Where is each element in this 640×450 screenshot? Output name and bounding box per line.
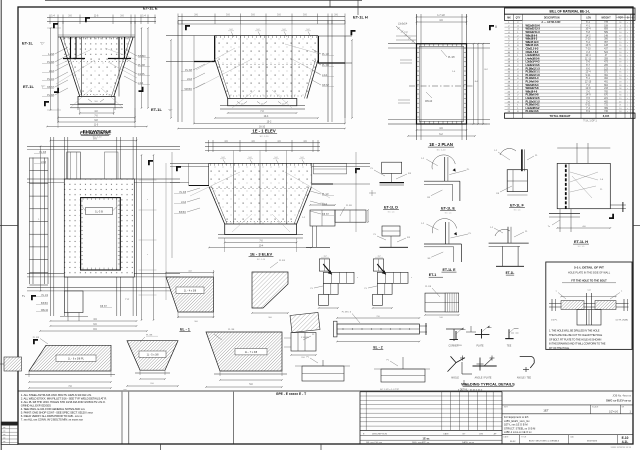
svg-text:x: x: [627, 29, 628, 31]
svg-text:x: x: [627, 25, 628, 27]
small detail m6 (row 2 mid-left, corner with arc): [421, 219, 472, 262]
rect detail with hatch (x425,y293): [424, 286, 459, 319]
detail D flags: [31, 295, 36, 300]
bottom band top rule: [18, 390, 633, 392]
svg-text:5-1-L DETAIL OF PIT: 5-1-L DETAIL OF PIT: [574, 265, 604, 269]
svg-text:II: II: [495, 25, 497, 29]
margin stamp table (outside border, bottom-left): [1, 422, 18, 445]
svg-text:xxBV_ELEV_xxxx_Gx: xxBV_ELEV_xxxx_Gx: [504, 419, 530, 423]
svg-text:x: x: [627, 88, 628, 90]
boxed note (right): typical weld detail note: [546, 262, 632, 350]
small detail m5 (row 2 left): [373, 226, 410, 247]
svg-text:1L - 7 x 3/8: 1L - 7 x 3/8: [245, 351, 258, 354]
svg-text:PL 3/8: PL 3/8: [228, 329, 235, 331]
svg-text:xxxxx xx/xx/xx xx:xx: xxxxx xx/xx/xx xx:xx: [611, 447, 632, 449]
svg-text:x: x: [627, 85, 628, 87]
svg-text:DESCRIPTION: DESCRIPTION: [372, 433, 387, 435]
svg-text:12'-4: 12'-4: [585, 72, 591, 74]
svg-text:SC: 1-10: SC: 1-10: [257, 259, 266, 261]
svg-text:TOTAL WEIGHT: TOTAL WEIGHT: [550, 114, 571, 118]
detail A leader notes, left column: [42, 47, 68, 97]
svg-text:10'-4: 10'-4: [585, 29, 591, 31]
svg-text:11-6: 11-6: [94, 15, 99, 18]
weld legend row2: angle-plate: [473, 356, 497, 380]
svg-text:x: x: [627, 55, 628, 57]
small detail m2 : ET-1L E: [421, 155, 470, 201]
svg-text:1L - 6 x 3/8 PL: 1L - 6 x 3/8 PL: [68, 358, 85, 361]
detail B side leader notes: [181, 49, 334, 91]
svg-text:x: x: [627, 45, 628, 47]
svg-text:x: x: [627, 72, 628, 74]
svg-text:THE PLATE WILL BE CUT TO CLEAR: THE PLATE WILL BE CUT TO CLEAR THE HOLE: [549, 333, 602, 337]
svg-text:1E - 2 PLAN: 1E - 2 PLAN: [429, 142, 453, 147]
vertical dimension ladder (between detail D and E): [141, 155, 143, 320]
svg-text:PL 3/8 x 6: PL 3/8 x 6: [342, 312, 352, 314]
svg-text:15-2: 15-2: [267, 121, 272, 124]
bottom band divider (double, x122): [121, 392, 123, 444]
svg-text:x: x: [627, 32, 628, 34]
svg-text:TYP: TYP: [404, 32, 409, 34]
svg-text:FIT THE HOLE TO THE BOLT: FIT THE HOLE TO THE BOLT: [571, 279, 607, 283]
detail A interior leaders: [56, 50, 90, 66]
long bolted bar detail: [334, 312, 428, 350]
connection cluster detail (lower mid-right): [365, 256, 412, 309]
svg-text:x: x: [411, 277, 412, 279]
svg-text:ET-1L E: ET-1L E: [143, 6, 158, 11]
weld legend: corner symbol: [449, 328, 466, 348]
svg-text:PL1/4x4 0-6: PL1/4x4 0-6: [526, 109, 539, 113]
gusset plate T4 (mid, hatched trapezoid): [166, 277, 214, 312]
svg-text:CORNER: CORNER: [449, 346, 459, 348]
svg-text:1. THE HOLE WILL BE DRILLED IN: 1. THE HOLE WILL BE DRILLED IN THE HOLE: [549, 329, 600, 333]
svg-text:2'-10: 2'-10: [585, 39, 591, 41]
svg-text:xx-xx: xx-xx: [510, 441, 516, 443]
top border tick 2: [357, 0, 359, 15]
svg-text:A — ASTM A36F: A — ASTM A36F: [541, 21, 561, 24]
svg-text:T-1-L 1 OF 1: T-1-L 1 OF 1: [583, 120, 597, 123]
svg-text:ANGLE / PLATE: ANGLE / PLATE: [475, 376, 492, 379]
svg-text:"D": "D": [168, 108, 172, 112]
detail C: framed opening plan (top-right): [388, 14, 490, 140]
bottom band divider x233.5: [233, 392, 235, 444]
svg-text:9'-11: 9'-11: [586, 75, 592, 77]
detail A right vertical dims: [141, 28, 143, 108]
detail E flags: [176, 166, 181, 171]
svg-text:TEE: TEE: [507, 346, 512, 348]
detail E flank verticals: [171, 152, 173, 258]
svg-text:x: x: [627, 52, 628, 54]
detail B interior leaders: [196, 48, 235, 70]
svg-text:SC: 1-10: SC: 1-10: [260, 136, 269, 138]
small angle symbols (x460,y360): [462, 362, 472, 385]
svg-text:ET-1L: ET-1L: [22, 41, 33, 46]
top border tick: [329, 0, 331, 7]
svg-text:TYP: TYP: [125, 299, 130, 301]
detail B flags: [185, 25, 190, 30]
svg-text:11'-11: 11'-11: [585, 58, 592, 60]
svg-text:FIT OF THE HOLE.: FIT OF THE HOLE.: [549, 346, 570, 350]
svg-text:1E - 3 ELEV: 1E - 3 ELEV: [250, 252, 273, 257]
svg-text:ELEV. SECTIONS xx DETAILS: ELEV. SECTIONS xx DETAILS: [529, 440, 560, 443]
svg-text:DES: xxx APP: xx: DES: xxx APP: xx: [412, 441, 430, 444]
svg-text:IN THE DRAWING AND IT WILL CON: IN THE DRAWING AND IT WILL CONFORM TO TH…: [549, 342, 606, 346]
title block: revision table (left): [360, 392, 502, 445]
svg-text:x: x: [627, 108, 628, 110]
detail A: hopper elevation E (top-left): [46, 15, 156, 129]
svg-text:WELDING TYPICAL DETAILS: WELDING TYPICAL DETAILS: [461, 381, 515, 386]
detail E side notes: [174, 188, 334, 216]
svg-text:13'-5: 13'-5: [585, 45, 591, 47]
svg-text:x: x: [627, 105, 628, 107]
svg-text:10-4: 10-4: [264, 115, 269, 118]
bottom margin tick: [160, 444, 162, 450]
svg-text:PLATE: PLATE: [476, 345, 484, 348]
svg-text:ANGLE: ANGLE: [451, 376, 459, 379]
small detail m1 (connection, row 1): [369, 162, 412, 213]
svg-text:x: x: [627, 35, 628, 37]
svg-text:BILL OF MATERIAL BE-1-L: BILL OF MATERIAL BE-1-L: [549, 10, 590, 14]
svg-text:6'-11: 6'-11: [586, 105, 592, 107]
detail E: hopper elevation (mid-center): [170, 140, 370, 252]
small detail m4 : ET-1L H (large, right): [548, 143, 626, 248]
title block: company / drawing info (right): [502, 392, 633, 444]
svg-text:x: x: [357, 277, 358, 279]
small detail m7 (row 2 mid-right): [489, 227, 529, 275]
svg-text:x: x: [627, 81, 628, 83]
right margin tick: [633, 225, 640, 227]
svg-text:ET-1L: ET-1L: [151, 107, 162, 112]
L-shaped plate detail (x308,y210): [302, 203, 369, 247]
svg-text:7'-10: 7'-10: [585, 48, 591, 50]
weld legend: plate symbol: [475, 326, 492, 348]
svg-text:W8x10: W8x10: [425, 101, 433, 103]
svg-text:EL - 2: EL - 2: [373, 346, 382, 350]
svg-text:12'-8: 12'-8: [585, 88, 591, 90]
double rect detail (x288,y315): [284, 333, 317, 360]
bottom margin tick 2: [320, 444, 322, 450]
svg-text:x: x: [627, 22, 628, 24]
svg-text:CAD: CAD: [570, 436, 575, 439]
svg-text:ET-1L: ET-1L: [506, 271, 515, 275]
bottom band divider x360: [359, 392, 361, 444]
bill of material table (top-right): [505, 8, 636, 123]
weld legend row2: angle: [448, 356, 466, 380]
svg-text:12'-10: 12'-10: [585, 81, 592, 83]
svg-text:4-1L: 4-1L: [622, 440, 629, 444]
svg-text:SCALE: SCALE: [592, 406, 599, 409]
svg-text:1L-3 B: 1L-3 B: [95, 210, 103, 214]
svg-text:LEN: LEN: [586, 18, 591, 20]
svg-text:x: x: [147, 199, 148, 201]
svg-text:ET-1L E: ET-1L E: [442, 268, 456, 272]
svg-text:xxBF-1 xxxx-xx 1E O xx: xxBF-1 xxxx-xx 1E O xx: [504, 430, 532, 434]
svg-text:3 SIDED: 3 SIDED: [301, 337, 310, 339]
detail A left vertical dims: [50, 28, 52, 110]
svg-text:QTY: QTY: [516, 18, 521, 20]
weld legend: tee symbol: [505, 329, 519, 348]
svg-text:SC: 1-10: SC: 1-10: [437, 150, 446, 152]
paper left edge: [0, 0, 2, 450]
svg-text:1L - 4 x 3/8: 1L - 4 x 3/8: [184, 290, 197, 293]
svg-text:x: x: [627, 98, 628, 100]
svg-text:x: x: [145, 59, 146, 61]
left margin centre tick: [0, 225, 18, 227]
svg-text:TOT: TOT: [618, 18, 623, 20]
svg-text:xxxx-xxxx: xxxx-xxxx: [587, 441, 598, 443]
svg-text:WEIGHT: WEIGHT: [601, 18, 611, 20]
svg-text:SC: 1-5: SC: 1-5: [514, 210, 522, 212]
svg-text:JOB No. 4xxx-xx: JOB No. 4xxx-xx: [612, 394, 631, 397]
svg-text:PL 3/8: PL 3/8: [346, 205, 353, 207]
svg-text:ELEVATION 1E: ELEVATION 1E: [80, 131, 110, 136]
svg-text:SC: 1-5: SC: 1-5: [445, 213, 453, 215]
svg-text:ANGLE / TEE: ANGLE / TEE: [517, 376, 532, 379]
svg-text:"D": "D": [40, 42, 45, 46]
svg-text:DWG xx-ELEV-xx-xx: DWG xx-ELEV-xx-xx: [606, 399, 631, 403]
gusset plate T1 (bottom-left long, hatched): [25, 337, 115, 389]
skewed plate (3-sided, hatched): [290, 313, 320, 340]
svg-text:1/2"=1-0: 1/2"=1-0: [609, 411, 619, 414]
detail E interior leaders: [190, 172, 240, 196]
svg-text:x: x: [627, 95, 628, 97]
weld legend row2: angle-tee: [517, 357, 534, 380]
svg-text:x: x: [627, 39, 628, 41]
detail A leader notes, right column: [124, 49, 150, 85]
connection cluster detail (lower mid-left): [311, 256, 358, 309]
detail A section flags: [85, 17, 90, 22]
svg-text:x: x: [147, 254, 148, 256]
svg-text:ET-1L H: ET-1L H: [353, 15, 368, 20]
svg-text:1/2 PL: 1/2 PL: [551, 320, 558, 322]
svg-text:SC: 1-5: SC: 1-5: [388, 212, 396, 214]
svg-text:x: x: [627, 62, 628, 64]
svg-text:PL 3/8: PL 3/8: [33, 337, 40, 339]
svg-text:14'-2: 14'-2: [585, 35, 591, 37]
small detail m3 : ET-1L F: [494, 148, 538, 211]
svg-text:"F": "F": [41, 85, 45, 89]
svg-text:14'-9: 14'-9: [585, 95, 591, 97]
svg-text:10'-4: 10'-4: [585, 55, 591, 57]
wedge plate T5 (hatched): [251, 260, 289, 319]
paper top edge: [45, 0, 362, 2]
svg-text:ET-1L H: ET-1L H: [574, 240, 588, 244]
svg-text:x: x: [627, 65, 628, 67]
bottom small rect detail B1: [295, 357, 350, 382]
svg-text:x: x: [627, 42, 628, 44]
detail B: hopper elevation (top-middle): [166, 14, 353, 130]
gusset plate T3 (bottom-right of row, hatched): [205, 329, 287, 388]
general notes text block: [21, 393, 107, 422]
svg-text:OF BOLT. FIT PLATE TO THE HO: OF BOLT. FIT PLATE TO THE HOLE AS SHOWN: [549, 337, 602, 341]
svg-text:x: x: [627, 78, 628, 80]
svg-text:x: x: [627, 75, 628, 77]
svg-text:DESCRIPTION: DESCRIPTION: [544, 18, 560, 20]
svg-text:CHK: CHK: [479, 433, 484, 435]
svg-text:For Equipment xx ET-: For Equipment xx ET-: [504, 415, 529, 419]
svg-text:1ET: 1ET: [543, 409, 549, 413]
svg-text:TITLE: TITLE: [521, 437, 527, 439]
detail D: opening plan with stiffener ring (mid-left): [27, 131, 180, 332]
svg-text:ET-1L: ET-1L: [23, 84, 34, 89]
tee symbols pair (x446,y325): [446, 326, 476, 347]
svg-text:1-7 1/2: 1-7 1/2: [437, 14, 445, 17]
svg-text:EL - 1: EL - 1: [180, 328, 190, 332]
svg-text:GPE - E xxxxx E - T: GPE - E xxxxx E - T: [276, 392, 306, 396]
svg-text:DR: xxx CH: xxx: DR: xxx CH: xxx: [366, 442, 383, 444]
svg-text:DATE: DATE: [443, 432, 449, 435]
svg-text:DATE: xx-xx: DATE: xx-xx: [462, 441, 475, 444]
svg-text:x: x: [627, 101, 628, 103]
svg-text:PL 3/8: PL 3/8: [279, 260, 286, 262]
svg-text:SC: 1-5: SC: 1-5: [578, 246, 586, 248]
svg-text:1L - 5 x 3/8: 1L - 5 x 3/8: [147, 354, 160, 357]
bottom small rect detail B2: [374, 357, 430, 382]
svg-text:PL 3/8: PL 3/8: [448, 57, 455, 59]
svg-text:1/2 PL (N4E): 1/2 PL (N4E): [615, 320, 628, 322]
detail C flag + II mark: [489, 25, 494, 30]
svg-text:KEY: KEY: [504, 407, 509, 409]
svg-text:x: x: [627, 48, 628, 50]
svg-text:11-0: 11-0: [94, 125, 99, 127]
svg-text:1E-xx: 1E-xx: [423, 436, 430, 440]
svg-text:ET-1L E: ET-1L E: [441, 207, 455, 211]
svg-text:PL 3/8: PL 3/8: [425, 286, 432, 288]
svg-text:x: x: [627, 68, 628, 70]
svg-text:HOLE PLATE IN THE SIDE OF WALL: HOLE PLATE IN THE SIDE OF WALL: [568, 271, 611, 274]
svg-text:8,465: 8,465: [603, 114, 610, 118]
svg-text:1ET-L xxx 1E O E-M: 1ET-L xxx 1E O E-M: [504, 423, 528, 427]
svg-text:10-4: 10-4: [259, 246, 264, 248]
gusset plate T2 (bottom-mid, hatched trapezoid): [126, 335, 179, 387]
svg-text:x: x: [627, 91, 628, 93]
svg-text:7. xxx ALL xxx CONN. W/ 2 BOLT: 7. xxx ALL xxx CONN. W/ 2 BOLTS MIN. xx …: [21, 418, 84, 422]
svg-text:x: x: [627, 58, 628, 60]
svg-text:DATE: DATE: [504, 436, 510, 439]
svg-text:MK: MK: [507, 18, 511, 20]
svg-text:ET-1: ET-1: [429, 273, 437, 277]
margin hatch chip (left, above stamp): [4, 357, 22, 371]
svg-text:ET-1L F: ET-1L F: [510, 204, 524, 208]
svg-text:STRUCT. STEEL xx O E-M: STRUCT. STEEL xx O E-M: [504, 426, 535, 430]
svg-text:ET-1L D: ET-1L D: [384, 206, 398, 210]
svg-text:TEE: TEE: [458, 345, 463, 347]
svg-text:L3x3x1/4: L3x3x1/4: [398, 24, 408, 26]
svg-text:1E - 1 ELEV: 1E - 1 ELEV: [252, 129, 275, 134]
